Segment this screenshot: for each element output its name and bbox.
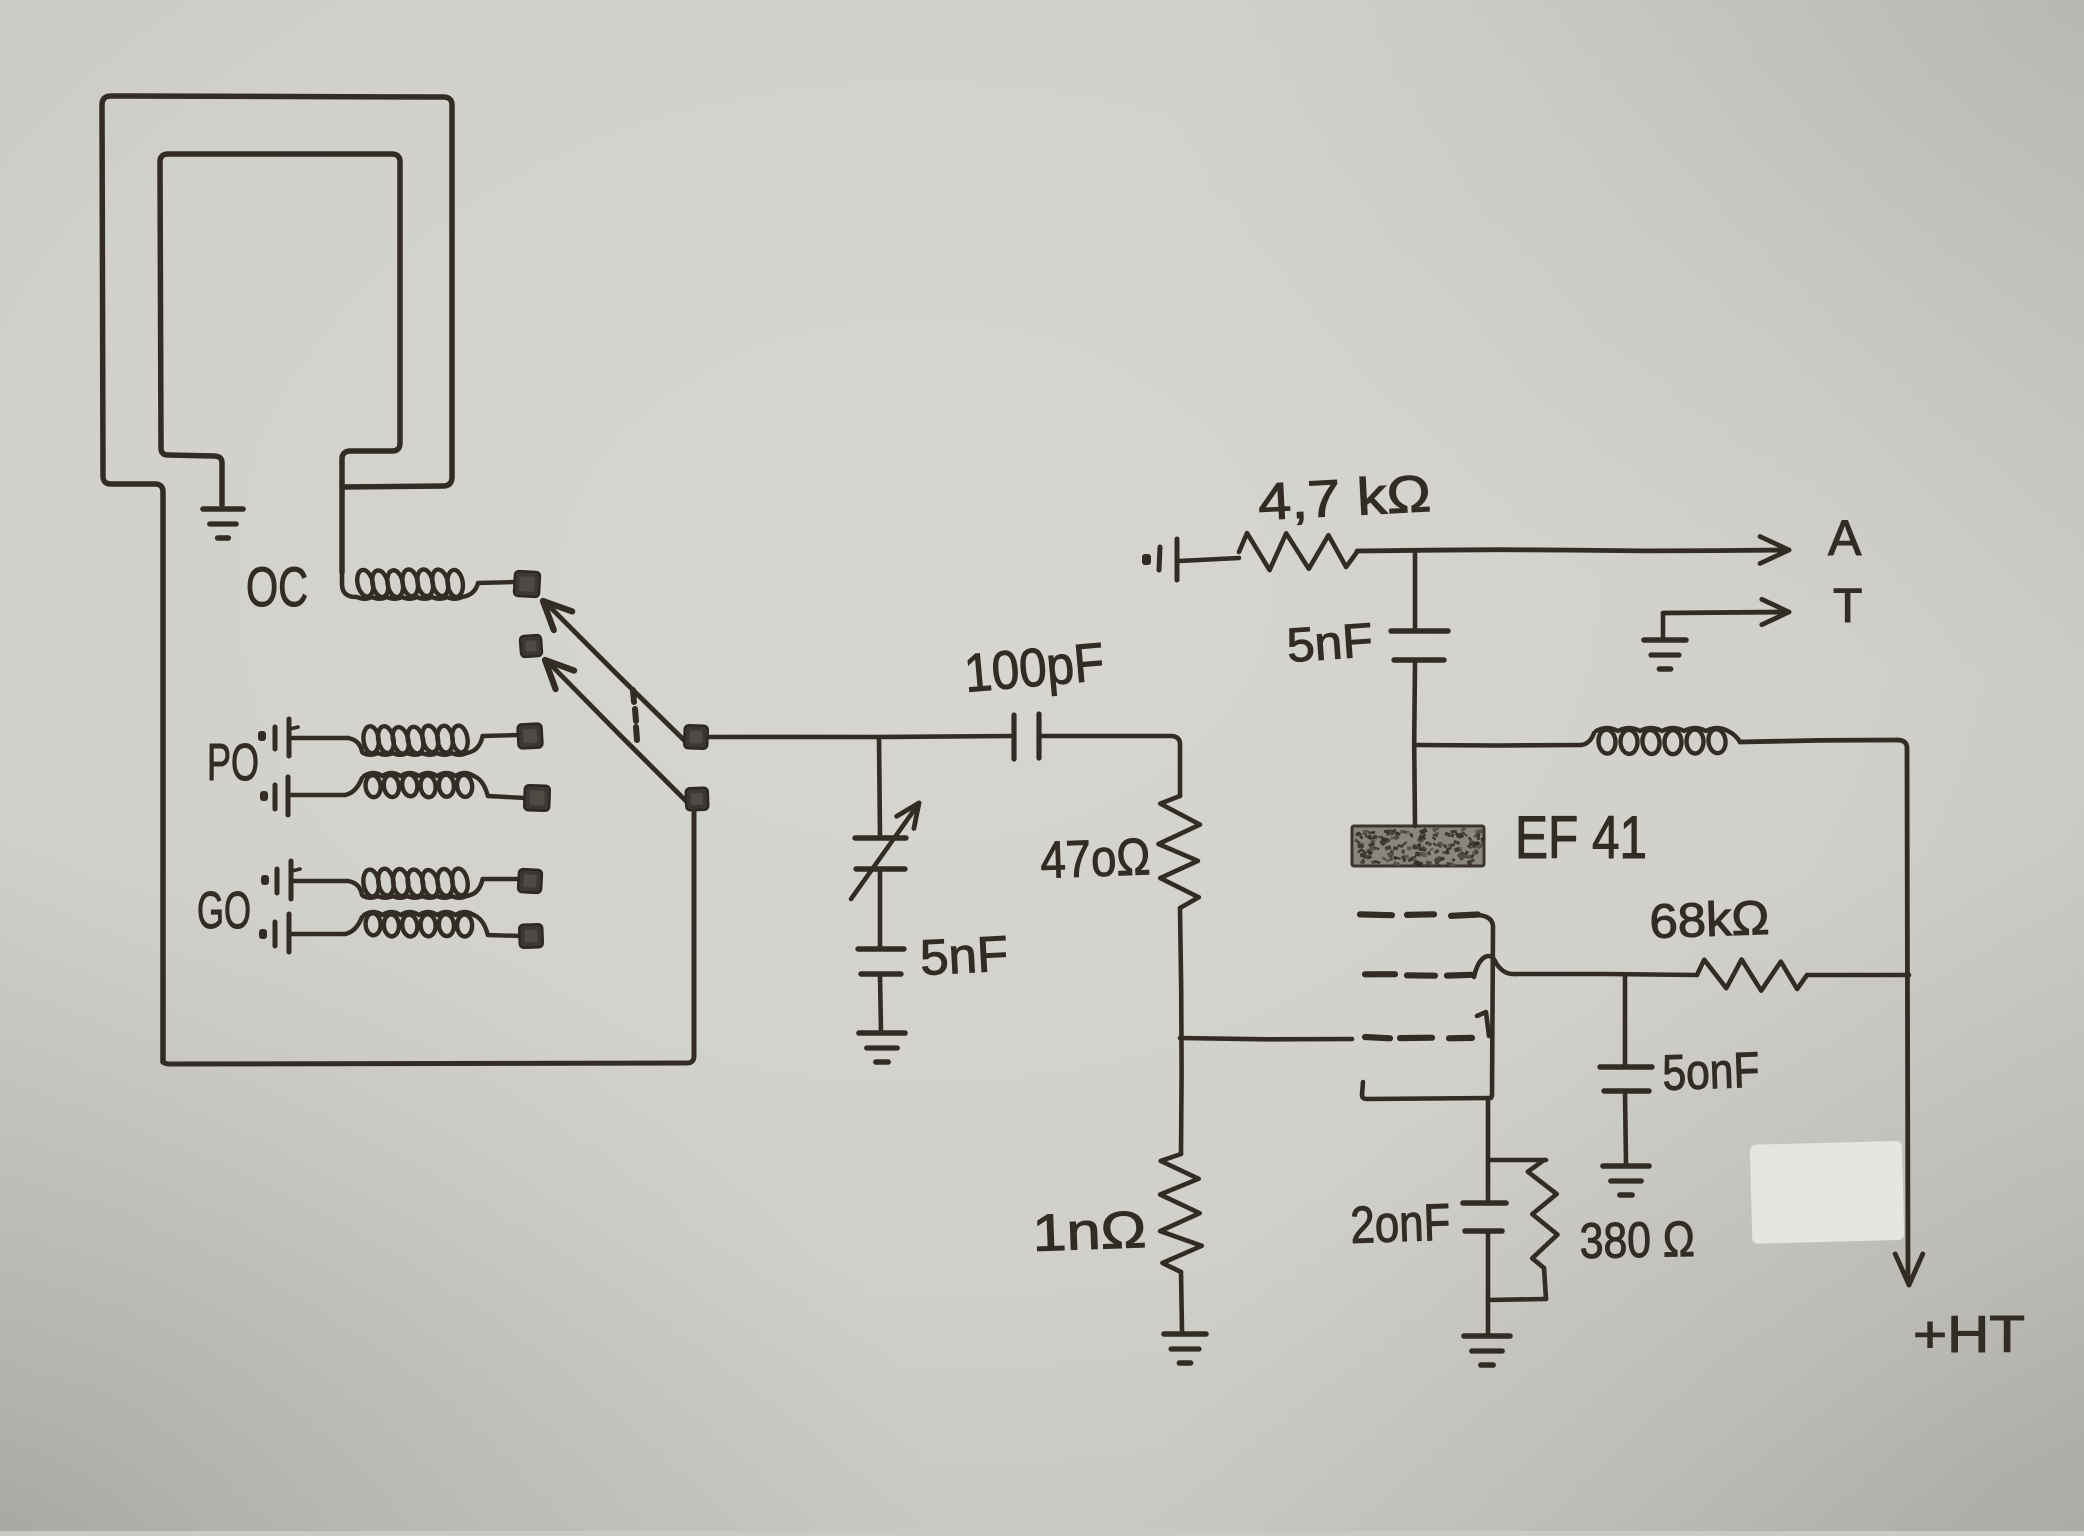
svg-text:4,7 kΩ: 4,7 kΩ [1257, 465, 1433, 532]
svg-text:68kΩ: 68kΩ [1649, 892, 1771, 949]
svg-text:100pF: 100pF [962, 632, 1107, 704]
svg-text:5nF: 5nF [1285, 614, 1374, 673]
svg-text:EF 41: EF 41 [1515, 804, 1647, 871]
svg-text:PO: PO [207, 734, 259, 792]
svg-text:5onF: 5onF [1661, 1042, 1760, 1101]
svg-text:GO: GO [197, 882, 251, 940]
svg-text:+HT: +HT [1913, 1306, 2025, 1364]
svg-text:OC: OC [246, 555, 308, 618]
svg-text:5nF: 5nF [919, 925, 1010, 986]
svg-text:T: T [1833, 580, 1862, 633]
svg-text:A: A [1828, 510, 1862, 566]
svg-text:47oΩ: 47oΩ [1039, 828, 1151, 890]
svg-text:1nΩ: 1nΩ [1031, 1201, 1147, 1263]
svg-text:380 Ω: 380 Ω [1579, 1211, 1695, 1269]
svg-text:2onF: 2onF [1349, 1194, 1451, 1255]
